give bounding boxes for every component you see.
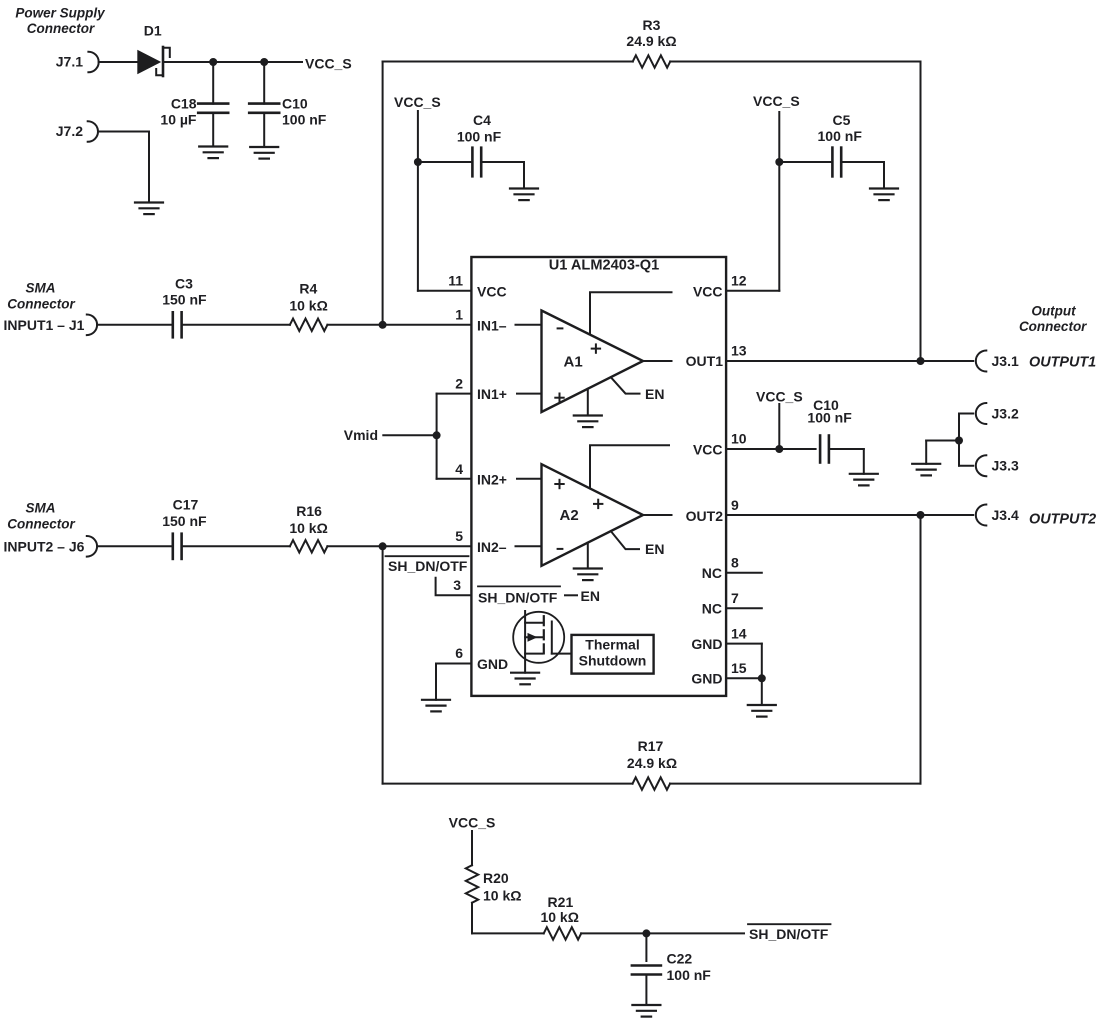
wire A1 VCC	[590, 292, 672, 334]
svg-text:C3: C3	[175, 276, 193, 292]
junction	[379, 542, 387, 550]
svg-text:R16: R16	[296, 503, 322, 519]
pin 3 SH_DN/OTF	[453, 577, 600, 606]
svg-text:Connector: Connector	[7, 297, 75, 312]
connector INPUT1 - J1	[4, 315, 98, 336]
op-amp A1	[542, 311, 644, 413]
wire J7.1 to D1	[99, 61, 138, 63]
pin 1 IN1-	[455, 306, 507, 333]
svg-text:VCC: VCC	[693, 284, 723, 300]
capacitor C17	[162, 497, 207, 559]
wire pin 10 rail	[726, 448, 816, 450]
capacitor C3	[162, 276, 207, 338]
wire R4 to pin 1	[327, 324, 471, 326]
pin 7 NC	[702, 590, 762, 617]
annotation SMA Connector (1)	[7, 280, 75, 311]
annotation Output Connector	[1019, 304, 1087, 334]
svg-text:2: 2	[455, 375, 463, 391]
wire OUT2 rail	[726, 514, 973, 516]
svg-text:C22: C22	[667, 951, 693, 967]
connector J3.2	[959, 403, 1019, 424]
svg-text:4: 4	[455, 461, 463, 477]
connector J3.4	[976, 505, 1019, 526]
svg-text:J7.2: J7.2	[56, 123, 83, 139]
junction	[775, 445, 783, 453]
svg-text:14: 14	[731, 625, 747, 641]
ground	[574, 416, 602, 428]
wire pins 14/15 to ground	[761, 644, 763, 705]
junction	[775, 158, 783, 166]
net VCC_S (pin 10)	[756, 389, 803, 450]
resistor R20	[466, 865, 522, 903]
pin 9 OUT2	[686, 497, 739, 524]
wire R20 to R21	[472, 903, 544, 934]
svg-text:7: 7	[731, 590, 739, 606]
svg-text:IN2+: IN2+	[477, 471, 507, 487]
svg-text:3: 3	[453, 577, 461, 593]
wire IN2+ to A2	[517, 478, 542, 480]
svg-text:VCC: VCC	[693, 441, 723, 457]
junction	[209, 58, 217, 66]
svg-text:100 nF: 100 nF	[818, 128, 863, 144]
junction	[414, 158, 422, 166]
svg-text:C17: C17	[173, 497, 199, 513]
svg-text:10 µF: 10 µF	[160, 112, 197, 128]
svg-text:A1: A1	[564, 353, 583, 370]
svg-text:VCC: VCC	[477, 284, 507, 300]
wire R3 right	[670, 62, 920, 362]
svg-text:Thermal: Thermal	[585, 637, 639, 653]
junction	[379, 321, 387, 329]
thermal shutdown block	[572, 635, 654, 674]
svg-text:SH_DN/OTF: SH_DN/OTF	[749, 926, 829, 942]
wire R21 to SH_DN/OTF	[581, 932, 744, 934]
ground	[870, 189, 898, 201]
capacitor C5	[779, 112, 884, 189]
ground	[850, 474, 878, 486]
wire Vmid bracket pins 2/4	[437, 394, 472, 479]
capacitor C4	[418, 112, 524, 189]
svg-text:C18: C18	[171, 96, 197, 112]
pin 10 VCC	[693, 431, 747, 458]
wire A2 ground	[587, 543, 589, 569]
wire IN2- to A2	[516, 545, 542, 547]
capacitor C22	[632, 933, 711, 1005]
svg-text:10 kΩ: 10 kΩ	[289, 520, 327, 536]
svg-text:EN: EN	[645, 386, 664, 402]
wire A1 OUT1	[643, 360, 672, 362]
svg-text:12: 12	[731, 272, 747, 288]
svg-text:15: 15	[731, 660, 747, 676]
svg-text:10: 10	[731, 431, 747, 447]
annotation OUTPUT2	[1029, 511, 1096, 527]
svg-text:100 nF: 100 nF	[807, 410, 852, 426]
wire pin 3 hook	[436, 578, 472, 595]
pin 14 GND	[691, 625, 761, 652]
junction	[260, 58, 268, 66]
annotation SMA Connector (2)	[7, 500, 75, 531]
svg-text:100 nF: 100 nF	[457, 128, 502, 144]
svg-text:EN: EN	[645, 541, 664, 557]
svg-text:D1: D1	[144, 23, 162, 39]
svg-text:C10: C10	[282, 96, 308, 112]
resistor R16	[289, 503, 327, 553]
svg-text:C4: C4	[473, 112, 491, 128]
connector J3.1	[976, 351, 1019, 372]
svg-text:IN2–: IN2–	[477, 539, 507, 555]
ground	[250, 147, 278, 159]
resistor R21	[540, 894, 581, 940]
node VCC_S	[305, 56, 352, 72]
svg-text:OUTPUT1: OUTPUT1	[1029, 354, 1096, 370]
wire R17 left	[383, 783, 633, 785]
svg-text:R21: R21	[548, 894, 574, 910]
pin 15 GND	[691, 660, 761, 687]
wire A2 EN	[611, 531, 665, 557]
svg-text:R3: R3	[643, 17, 661, 33]
wire C3 to R4	[182, 324, 290, 326]
svg-text:J3.1: J3.1	[992, 353, 1019, 369]
svg-text:C5: C5	[833, 112, 851, 128]
svg-text:R17: R17	[638, 738, 664, 754]
ground	[632, 1005, 660, 1017]
pin 13 OUT1	[686, 343, 747, 370]
wire J1 to C3	[97, 324, 173, 326]
svg-text:8: 8	[731, 555, 739, 571]
svg-text:J3.2: J3.2	[992, 405, 1019, 421]
ground	[748, 705, 776, 717]
annotation Power Supply Connector	[15, 6, 106, 37]
resistor R3	[626, 17, 676, 68]
resistor R17	[627, 738, 677, 790]
net VCC_S (bottom)	[449, 815, 496, 866]
svg-text:Output: Output	[1031, 304, 1076, 319]
svg-text:Vmid: Vmid	[344, 427, 378, 443]
junction	[433, 431, 441, 439]
net VCC_S (C5)	[753, 93, 800, 291]
wire J7.2 to ground	[98, 132, 149, 203]
ground	[574, 569, 602, 581]
svg-text:Connector: Connector	[27, 21, 95, 36]
junction	[917, 511, 925, 519]
ground	[199, 147, 227, 159]
wire R3 left	[383, 62, 633, 325]
connector J7.2	[56, 121, 98, 142]
wire D1 to VCC_S	[164, 61, 302, 63]
svg-text:5: 5	[455, 528, 463, 544]
junction	[955, 437, 963, 445]
capacitor C18	[160, 62, 228, 147]
junction	[917, 357, 925, 365]
net SH_DN/OTF (left)	[386, 556, 469, 574]
wire A2 OUT2	[643, 514, 672, 516]
svg-text:1: 1	[455, 306, 463, 322]
svg-text:GND: GND	[477, 656, 508, 672]
diode D1 (Schottky)	[137, 23, 170, 77]
svg-text:150 nF: 150 nF	[162, 292, 207, 308]
pin 2 IN1+	[455, 375, 507, 402]
svg-text:Connector: Connector	[7, 517, 75, 532]
wire OUT1 rail	[726, 360, 973, 362]
svg-text:SH_DN/OTF: SH_DN/OTF	[478, 590, 558, 606]
svg-text:10 kΩ: 10 kΩ	[289, 297, 327, 313]
pin 6 GND	[455, 645, 508, 672]
svg-text:VCC_S: VCC_S	[305, 56, 352, 72]
svg-text:J7.1: J7.1	[56, 54, 83, 70]
resistor R4	[289, 281, 327, 331]
svg-text:EN: EN	[581, 588, 600, 604]
svg-text:6: 6	[455, 645, 463, 661]
svg-text:10 kΩ: 10 kΩ	[540, 909, 578, 925]
wire IN1- to A1	[516, 324, 542, 326]
svg-text:A2: A2	[560, 507, 579, 524]
connector INPUT2 - J6	[4, 536, 98, 557]
svg-text:IN1–: IN1–	[477, 317, 507, 333]
wire R16 to pin 5	[327, 545, 471, 547]
svg-text:150 nF: 150 nF	[162, 513, 207, 529]
svg-text:NC: NC	[702, 601, 722, 617]
ground	[510, 189, 538, 201]
svg-text:Shutdown: Shutdown	[579, 653, 647, 669]
op-amp A2	[542, 464, 644, 566]
svg-text:100 nF: 100 nF	[282, 112, 327, 128]
svg-text:OUTPUT2: OUTPUT2	[1029, 511, 1096, 527]
connector J3.3	[959, 455, 1019, 476]
wire pin 6 to ground	[436, 664, 471, 700]
annotation OUTPUT1	[1029, 354, 1096, 370]
svg-text:U1 ALM2403-Q1: U1 ALM2403-Q1	[549, 257, 660, 273]
ground	[422, 700, 450, 712]
wire R17 right	[670, 783, 920, 785]
svg-text:J3.3: J3.3	[992, 458, 1019, 474]
wire pin 5 junction to R17	[382, 546, 384, 783]
svg-text:GND: GND	[691, 671, 722, 687]
wire J6 to C17	[97, 545, 173, 547]
transistor Q1 (thermal sense MOSFET)	[513, 611, 571, 673]
node Vmid	[344, 427, 437, 443]
svg-text:100 nF: 100 nF	[667, 967, 712, 983]
svg-text:Connector: Connector	[1019, 319, 1087, 334]
ground	[511, 673, 539, 685]
wire IN1+ to A1	[517, 393, 542, 395]
junction	[758, 674, 766, 682]
svg-text:24.9 kΩ: 24.9 kΩ	[627, 755, 677, 771]
svg-text:SMA: SMA	[26, 280, 56, 295]
svg-text:GND: GND	[691, 636, 722, 652]
wire A2 VCC	[590, 445, 669, 488]
svg-text:OUT1: OUT1	[686, 353, 724, 369]
pin 4 IN2+	[455, 461, 507, 488]
pin 12 VCC	[693, 272, 779, 299]
svg-text:Power Supply: Power Supply	[15, 6, 106, 21]
svg-text:24.9 kΩ: 24.9 kΩ	[626, 33, 676, 49]
svg-text:INPUT2 – J6: INPUT2 – J6	[4, 539, 85, 555]
junction	[642, 929, 650, 937]
svg-text:9: 9	[731, 497, 739, 513]
svg-text:OUT2: OUT2	[686, 508, 724, 524]
svg-text:VCC_S: VCC_S	[394, 94, 441, 110]
svg-text:10 kΩ: 10 kΩ	[483, 887, 521, 903]
pin 11 VCC	[418, 272, 507, 299]
svg-text:R4: R4	[299, 281, 317, 297]
ground	[135, 203, 163, 215]
wire A1 EN	[611, 377, 665, 402]
svg-text:VCC_S: VCC_S	[753, 93, 800, 109]
svg-text:SMA: SMA	[26, 500, 56, 515]
svg-text:13: 13	[731, 343, 747, 359]
ground	[912, 464, 940, 476]
svg-text:SH_DN/OTF: SH_DN/OTF	[388, 558, 468, 574]
net VCC_S (C4)	[394, 94, 441, 291]
pin 5 IN2-	[455, 528, 507, 555]
net SH_DN/OTF (bottom)	[748, 924, 831, 942]
pin 8 NC	[702, 555, 762, 582]
connector J7.1	[56, 52, 99, 73]
svg-text:NC: NC	[702, 565, 722, 581]
capacitor C10 (output)	[807, 397, 863, 474]
wire C17 to R16	[182, 545, 290, 547]
capacitor C10 (input)	[249, 62, 327, 147]
op-amp IC U1 ALM2403-Q1 box	[471, 257, 726, 696]
svg-text:INPUT1 – J1: INPUT1 – J1	[4, 317, 85, 333]
svg-text:VCC_S: VCC_S	[449, 815, 496, 831]
svg-text:11: 11	[448, 272, 463, 288]
svg-text:R20: R20	[483, 870, 509, 886]
svg-text:IN1+: IN1+	[477, 386, 507, 402]
wire OUT2 to R17	[920, 515, 922, 784]
wire J3.2/J3.3 link	[926, 414, 959, 466]
svg-text:J3.4: J3.4	[992, 507, 1019, 523]
svg-text:VCC_S: VCC_S	[756, 389, 803, 405]
wire A1 ground	[587, 389, 589, 416]
